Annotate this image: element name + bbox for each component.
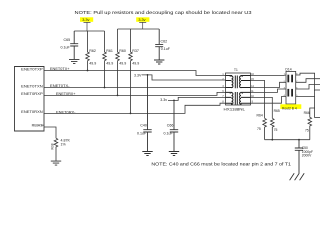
svg-text:R37: R37 (132, 49, 139, 53)
svg-text:0.1uF: 0.1uF (137, 132, 147, 136)
wire ENET0TX- row2 (44, 87, 226, 89)
chassis ground (290, 173, 305, 180)
junction R61/row2 (104, 87, 106, 89)
wire ENET0TX+ row1 (44, 71, 226, 76)
T1 bottom core (235, 92, 237, 105)
svg-text:75: 75 (274, 128, 278, 132)
T1 top core (235, 76, 237, 89)
capacitor C62 (155, 29, 171, 60)
svg-text:49.9: 49.9 (106, 61, 113, 65)
resistor R64 (257, 114, 267, 140)
T1 top primary coil (226, 76, 233, 88)
junction C50/rail (298, 139, 300, 141)
svg-text:3.3v: 3.3v (82, 18, 89, 22)
svg-text:R60: R60 (119, 49, 126, 53)
connector RJ45 (315, 90, 320, 118)
junction R60/row3 (117, 95, 119, 97)
svg-text:0.1uF: 0.1uF (161, 47, 171, 51)
ground (C62) (154, 60, 164, 64)
svg-text:T1: T1 (234, 68, 238, 72)
svg-text:ENET0RX-: ENET0RX- (56, 110, 76, 114)
wire T1 pin14 to D14 (251, 82, 287, 87)
svg-text:49.9: 49.9 (132, 61, 139, 65)
wire T1 pin15 to R64 (251, 81, 265, 119)
svg-text:ENET0TX-: ENET0TX- (50, 84, 70, 88)
capacitor C40 (137, 75, 152, 151)
svg-text:3.3v: 3.3v (160, 98, 167, 102)
svg-text:ENET0TX+: ENET0TX+ (50, 67, 70, 71)
wire T1 pin11 to D14 (251, 89, 287, 92)
resistor R62 (86, 31, 97, 71)
T1 bottom secondary coil (240, 92, 251, 104)
D14 pin numbers (284, 74, 299, 98)
wire T1 pin9 to D14 (251, 97, 287, 104)
capacitor C65 (61, 31, 79, 59)
junction C40 (147, 74, 149, 76)
junction R37/row4 (130, 113, 132, 115)
svg-text:R61: R61 (106, 49, 113, 53)
svg-text:3.3V: 3.3V (134, 73, 142, 77)
power symbol 3.3V B (136, 17, 149, 29)
wire RBIAS (44, 127, 56, 138)
svg-text:2000V: 2000V (302, 154, 312, 158)
T1 top secondary coil (240, 76, 251, 88)
wire termination rail (265, 139, 310, 141)
svg-text:R64: R64 (257, 114, 263, 118)
resistor R37 (129, 29, 140, 113)
choke D14 (285, 68, 295, 104)
wire T1 pin10 to R65 (251, 97, 273, 118)
T1 pin numbers left (222, 74, 224, 104)
svg-text:R66: R66 (304, 111, 310, 115)
transformer T1 (224, 68, 251, 112)
svg-text:C40: C40 (140, 124, 147, 128)
wire ENET0RX- row4 (44, 103, 226, 113)
ground (C65) (69, 59, 79, 63)
svg-text:0.1uF: 0.1uF (164, 132, 174, 136)
wire T1 pin16 to D14 (251, 74, 287, 77)
junction R62/row1 (87, 70, 89, 72)
resistor R61 (103, 31, 114, 88)
wire 3.3V to T1 pin2 (142, 75, 226, 80)
resistor R66 (304, 108, 315, 140)
svg-text:ENET0RXN: ENET0RXN (21, 110, 43, 114)
T1 bottom primary coil (226, 92, 233, 104)
junction R65/rail (271, 139, 273, 141)
svg-text:C65: C65 (64, 38, 71, 42)
wire D14 out1 (296, 73, 315, 91)
svg-text:NOTE: C40 and C66 must be loc: NOTE: C40 and C66 must be located near p… (151, 161, 291, 166)
capacitor C50 (295, 140, 313, 174)
resistor R38 (51, 138, 71, 161)
wire D14 out3 (296, 85, 320, 90)
capacitor C66 (164, 100, 179, 151)
resistor R65 (270, 109, 279, 140)
svg-text:ENET0RXP: ENET0RXP (21, 92, 43, 96)
wire rail B (118, 28, 160, 30)
power symbol 3.3V A (80, 17, 93, 31)
svg-text:NOTE: Pull up resistors and de: NOTE: Pull up resistors and decoupling c… (75, 10, 253, 15)
block U3 connector (15, 67, 45, 132)
svg-text:R62: R62 (89, 49, 96, 53)
svg-text:C62: C62 (161, 39, 168, 43)
wire ENET0RX+ row3 (44, 92, 226, 95)
svg-text:75: 75 (305, 128, 309, 132)
svg-text:0.1uF: 0.1uF (61, 46, 71, 50)
svg-text:49.9: 49.9 (119, 61, 126, 65)
resistor R60 (116, 29, 127, 95)
T1 pin numbers right (251, 74, 254, 104)
highlight tag (280, 104, 301, 110)
svg-text:ENET0TXN: ENET0TXN (21, 84, 43, 88)
wire D14 out2 (296, 79, 320, 83)
svg-text:75: 75 (257, 127, 261, 131)
svg-text:1%: 1% (61, 143, 67, 147)
T1 polarity dots (230, 76, 231, 77)
svg-text:ENET0RX+: ENET0RX+ (56, 92, 76, 96)
svg-text:C66: C66 (167, 124, 174, 128)
wire rail A (74, 30, 104, 32)
junction C66 (173, 100, 175, 102)
ground (R38) (51, 161, 61, 165)
svg-text:R65: R65 (274, 109, 280, 113)
wire D14 out4 (296, 96, 315, 98)
svg-text:HX1188NL: HX1188NL (224, 108, 246, 112)
svg-text:R38: R38 (51, 143, 55, 149)
ground (C66) (169, 152, 179, 156)
svg-text:Rout2 B 4: Rout2 B 4 (282, 107, 297, 111)
svg-text:ENET0TXP: ENET0TXP (21, 67, 43, 71)
svg-text:3.3v: 3.3v (138, 18, 145, 22)
wire 3.3V to T1 pin7 (168, 97, 226, 100)
ground (C40) (142, 152, 152, 156)
svg-text:49.9: 49.9 (89, 61, 96, 65)
